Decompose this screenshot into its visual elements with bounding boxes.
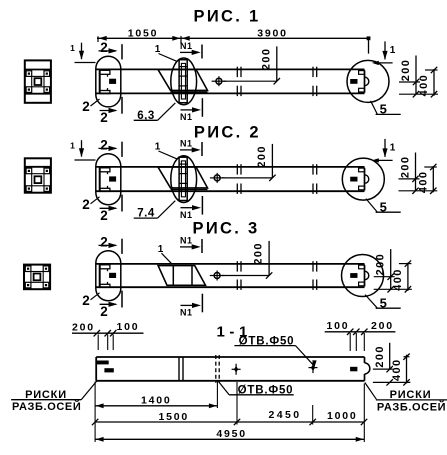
column/bolt through joint [179, 157, 187, 200]
detail bubble 5 (circle) [347, 60, 389, 102]
svg-text:100: 100 [327, 320, 350, 332]
embedded channel, left end [99, 168, 101, 192]
dim 200 right [415, 56, 417, 95]
svg-text:200: 200 [371, 320, 394, 332]
embedded part, right end [364, 265, 366, 286]
gusset parallelogram [158, 266, 205, 286]
svg-text:2450: 2450 [269, 409, 302, 421]
dim 400 right [433, 69, 435, 96]
svg-text:РАЗБ.ОСЕЙ: РАЗБ.ОСЕЙ [377, 401, 446, 414]
section 1 cut mark, right [375, 159, 393, 161]
column/bolt through joint [179, 60, 187, 103]
segment joint marks [236, 67, 238, 77]
svg-text:1000: 1000 [327, 410, 358, 422]
hole mark right [312, 362, 314, 373]
svg-text:200: 200 [400, 156, 412, 179]
anchor plate (filled) right [350, 177, 357, 182]
weld mark N1 bottom [181, 304, 193, 306]
detail bubble 5 (circle) [342, 255, 384, 297]
svg-text:1: 1 [70, 140, 75, 150]
svg-text:3900: 3900 [257, 28, 288, 40]
svg-text:2: 2 [82, 197, 90, 212]
weld mark N1 bottom [181, 109, 193, 111]
svg-text:400: 400 [392, 268, 404, 291]
beam bottom edge [96, 286, 365, 288]
weld mark N1 bottom [181, 207, 193, 209]
svg-text:N1: N1 [180, 112, 193, 122]
dim 200 at joint [276, 46, 278, 81]
svg-text:1400: 1400 [141, 394, 172, 406]
svg-text:1: 1 [390, 45, 396, 56]
svg-text:1: 1 [155, 142, 161, 153]
detail label 5 with leader [365, 295, 377, 309]
dim 200 right [415, 153, 417, 191]
svg-text:200: 200 [253, 242, 265, 265]
embedded channel, left end [99, 265, 101, 288]
svg-text:1050: 1050 [128, 28, 159, 40]
column cross-section icon, fig 3 [24, 265, 50, 290]
dim 400 right [432, 166, 434, 192]
beam top edge [96, 68, 365, 70]
svg-text:5: 5 [380, 295, 387, 310]
left anchor plate [104, 368, 113, 372]
column cross-section icon, fig 1 [25, 60, 51, 102]
right anchor plate [350, 367, 357, 372]
anchor plate (filled) left [109, 79, 116, 84]
svg-text:200: 200 [374, 345, 386, 368]
section 1 cut mark, right [375, 62, 393, 64]
detail label 5 with leader [366, 199, 378, 213]
detail bubble 2 (stadium) [96, 56, 121, 107]
svg-text:200: 200 [375, 253, 387, 276]
detail bubble 2 (stadium) [96, 154, 121, 205]
detail bubble (ellipse) at joint [171, 58, 197, 105]
gusset parallelogram [158, 69, 208, 90]
hole symbol [214, 273, 220, 279]
left end lip [98, 361, 109, 364]
svg-text:N1: N1 [180, 236, 193, 246]
svg-text:N1: N1 [180, 308, 193, 318]
svg-text:200: 200 [256, 145, 268, 168]
dim 200 right [390, 249, 392, 289]
section 2 marker bottom [100, 110, 116, 112]
svg-text:5: 5 [380, 199, 387, 214]
svg-text:2: 2 [100, 235, 108, 250]
anchor plate (filled) right [350, 79, 357, 84]
svg-text:РИСКИ: РИСКИ [390, 389, 432, 401]
svg-text:5: 5 [380, 102, 387, 117]
beam top edge [96, 166, 365, 168]
hole symbol [214, 175, 220, 181]
svg-text:2: 2 [100, 40, 108, 55]
svg-text:200: 200 [72, 321, 95, 333]
svg-text:2: 2 [100, 208, 108, 223]
svg-text:400: 400 [417, 171, 429, 194]
detail bubble (ellipse) at joint [171, 156, 197, 203]
svg-text:РИС. 2: РИС. 2 [194, 124, 261, 142]
svg-text:РАЗБ.ОСЕЙ: РАЗБ.ОСЕЙ [12, 400, 81, 413]
svg-text:1: 1 [390, 142, 396, 153]
joint lines solid [178, 357, 180, 381]
svg-text:N1: N1 [180, 41, 193, 51]
svg-text:2: 2 [100, 304, 108, 319]
svg-text:N1: N1 [180, 210, 193, 220]
section 1 cut mark, left [75, 159, 96, 161]
beam bottom edge [96, 190, 365, 192]
beam top edge [96, 263, 365, 265]
dim 200 at joint [271, 144, 273, 178]
dim line 1050 / 3900 [97, 37, 369, 39]
detail label 5 with leader [371, 101, 378, 115]
detail bubble 5 (circle) [342, 158, 384, 200]
svg-text:100: 100 [117, 321, 140, 333]
svg-text:1: 1 [155, 44, 161, 55]
svg-text:2: 2 [100, 138, 108, 153]
embedded channel, left end [99, 70, 101, 93]
hole mark left [235, 364, 237, 375]
segment joint marks [236, 261, 238, 271]
section 2 marker bottom [100, 207, 116, 209]
extension lines bottom [94, 382, 96, 443]
gusset parallelogram [158, 167, 208, 188]
detail bubble 2 (stadium) [96, 251, 121, 301]
embedded part, right end [364, 71, 366, 93]
svg-text:1: 1 [70, 43, 75, 53]
svg-text:200: 200 [400, 59, 412, 82]
svg-text:2: 2 [82, 99, 90, 114]
right end notch [365, 363, 370, 374]
svg-text:400: 400 [391, 358, 403, 381]
dim 200 at joint [268, 241, 270, 276]
embedded part, right end [364, 168, 366, 190]
section beam outline [96, 356, 364, 358]
column cross-section icon, fig 2 [25, 158, 51, 192]
beam bottom edge [96, 92, 365, 94]
svg-text:РИС. 3: РИС. 3 [193, 219, 260, 237]
segment joint marks [236, 164, 238, 174]
anchor plate (filled) left [109, 273, 116, 278]
svg-text:N1: N1 [180, 139, 193, 149]
anchor plate (filled) right [350, 273, 357, 278]
svg-text:2: 2 [100, 110, 108, 125]
section 1 cut mark, left [75, 62, 96, 64]
hole symbol [216, 78, 222, 84]
svg-text:РИС. 1: РИС. 1 [194, 7, 261, 25]
right dims 200/400 of section [389, 343, 391, 370]
svg-text:4950: 4950 [216, 428, 247, 440]
svg-text:2: 2 [82, 293, 90, 308]
dim 400 right [407, 263, 409, 291]
svg-text:400: 400 [418, 74, 430, 97]
svg-text:1: 1 [158, 244, 164, 255]
section 2 marker bottom [100, 303, 116, 305]
joint lines dashed [215, 355, 217, 383]
anchor plate (filled) left [109, 176, 116, 181]
svg-text:200: 200 [260, 48, 272, 71]
